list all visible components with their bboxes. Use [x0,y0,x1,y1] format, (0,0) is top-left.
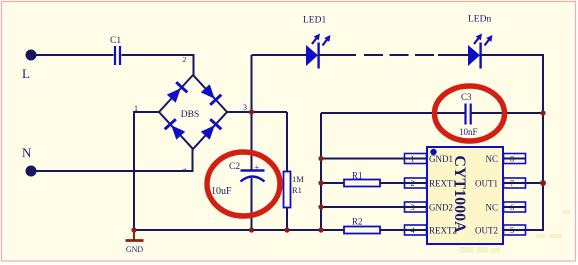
svg-text:L: L [22,66,30,81]
wire GND net vertical [320,113,322,230]
svg-text:1: 1 [410,154,414,164]
svg-text:6: 6 [510,202,514,212]
junction R1M/ground [284,227,289,232]
wire C2 to ground rail [251,178,253,230]
svg-text:CYT1000A: CYT1000A [451,155,468,233]
svg-text:GND: GND [126,245,144,254]
svg-text:NC: NC [485,154,498,164]
junction OUT rail / C3 [540,110,545,115]
wire ground rail [134,229,344,231]
LED1 [303,16,331,69]
svg-text:8: 8 [510,154,514,164]
ground symbol GND [126,230,144,254]
decorative noise [460,210,570,253]
wire bridge pin3 to DC+ node [227,111,287,113]
pin 3 GND2 [405,202,454,212]
junction GND2 branch [318,204,323,209]
svg-text:REXT1: REXT1 [429,178,457,188]
svg-text:NC: NC [485,202,498,212]
pin 8 NC [485,154,526,164]
pin 5 OUT2 [475,225,526,235]
junction ground tap [131,227,136,232]
pin 6 NC [485,202,526,212]
svg-text:2: 2 [410,178,414,188]
pin 7 OUT1 [475,178,543,188]
wire LED string to LEDn [438,54,468,56]
bridge diode D-topright [201,84,222,105]
wire R1 to ground rail [286,208,288,230]
svg-text:+: + [255,162,260,172]
pin 2 REXT1 [405,178,458,188]
wire R1 to REXT1 [380,182,427,184]
svg-text:3: 3 [243,103,247,112]
svg-text:1M: 1M [292,174,304,184]
svg-text:OUT1: OUT1 [475,178,498,188]
svg-text:OUT2: OUT2 [475,225,498,235]
capacitor C1 [110,36,121,65]
wire LED1 to LED string [319,54,356,56]
wire bridge pin1 to ground rail [134,112,159,230]
node L [22,50,37,82]
svg-text:R2: R2 [352,217,363,227]
svg-text:C1: C1 [110,36,121,46]
junction at node 3 [249,109,254,114]
bridge diode D-botright [201,119,222,140]
junction R1 branch [318,180,323,185]
capacitor C2 (10uF electrolytic) [211,162,265,197]
node N [22,145,37,177]
svg-text:10uF: 10uF [211,186,232,197]
pin 1 GND1 [405,154,454,164]
wire C3 to OUT rail [471,112,543,114]
resistor R2 [344,217,380,234]
wire R2 to REXT2 [380,229,427,231]
capacitor C3 (10nF) [459,92,478,137]
svg-text:7: 7 [510,178,514,188]
junction OUT rail / OUT1 [540,180,546,186]
red highlight circle around C2 [207,152,280,216]
resistor R1 (horizontal) [344,171,380,187]
wire top rail to LED1 [252,54,307,56]
bridge diode D-botleft [165,119,186,140]
pin 4 REXT2 [405,225,458,235]
IC U1 CYT1000A body [427,147,503,244]
bridge diode D-topleft [167,82,188,103]
junction GND net / ground rail [318,227,323,232]
wire C1 to bridge top (pin 2) [122,55,194,76]
wire GND1 pin branch [321,158,427,160]
wire L to C1 [31,54,114,56]
junction C2/ground [249,227,254,232]
svg-text:C3: C3 [461,92,472,102]
dashed wire LED string [364,54,434,56]
wire GND2 pin branch [321,206,427,208]
svg-text:R1: R1 [292,185,302,195]
resistor R1 1M (vertical) [284,172,305,208]
svg-text:DBS: DBS [181,110,199,120]
wire N to bridge pin4 [31,149,193,171]
junction GND1 branch [318,156,323,161]
svg-text:5: 5 [510,225,514,235]
svg-text:GND1: GND1 [429,154,453,164]
svg-text:C2: C2 [229,162,240,172]
wire to resistor R1 (horizontal) [321,182,344,184]
wire LEDn to OUT rail [481,55,543,230]
svg-text:2: 2 [183,55,187,64]
wire DC+ to resistor R1 (1M) [286,112,288,171]
svg-text:3: 3 [410,202,414,212]
LEDn [468,15,493,69]
wire GND net to C3 [321,112,465,114]
svg-text:10nF: 10nF [459,127,478,137]
svg-text:REXT2: REXT2 [429,225,457,235]
svg-text:LEDn: LEDn [468,15,491,25]
wire DC+ vertical to C2 [251,55,253,170]
red highlight circle around C3 [435,86,505,141]
svg-text:R1: R1 [352,171,363,181]
svg-text:LED1: LED1 [303,16,326,26]
svg-text:N: N [22,145,32,160]
diode bridge DBS outline [159,75,227,149]
svg-text:GND2: GND2 [429,202,453,212]
